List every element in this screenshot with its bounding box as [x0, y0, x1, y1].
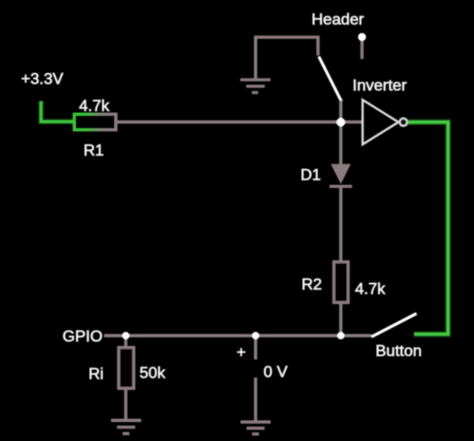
wire: node to diode anode	[339, 122, 342, 165]
svg-text:Button: Button	[376, 343, 422, 360]
svg-text:4.7k: 4.7k	[79, 98, 110, 115]
diode cathode bar	[330, 185, 353, 188]
wire: R1 to inverter input	[116, 120, 362, 123]
wire: inverter output net (green, glow)	[408, 122, 448, 334]
header pin terminal dot	[358, 33, 366, 41]
ground (Ri)	[111, 420, 141, 433]
resistor R2	[334, 262, 348, 303]
svg-text:+: +	[237, 345, 246, 362]
wire: R2 to bottom node	[339, 303, 342, 337]
wire: node to source + terminal	[254, 336, 257, 360]
diode D1	[331, 164, 351, 184]
svg-text:+3.3V: +3.3V	[21, 71, 64, 88]
wire: ground up and over to header switch	[256, 37, 318, 79]
svg-text:4.7k: 4.7k	[355, 281, 386, 298]
op-amp U1 inverter triangle	[363, 100, 399, 145]
switch lever (Header)	[319, 57, 342, 102]
node junction (inverter input / diode top)	[336, 118, 345, 127]
svg-text:Inverter: Inverter	[353, 78, 408, 95]
wire: bottom rail GPIO to button	[104, 334, 372, 337]
wire: node to Ri	[124, 336, 127, 347]
wire: diode to R2	[339, 187, 342, 261]
svg-text:Header: Header	[312, 12, 365, 29]
svg-text:D1: D1	[301, 167, 322, 184]
resistor Ri	[119, 347, 134, 388]
node at 0V source	[252, 332, 259, 339]
wire: +3.3V stub to R1 (green, glow)	[41, 101, 73, 122]
svg-text:0 V: 0 V	[264, 364, 288, 381]
wire: source - terminal to ground	[254, 378, 257, 422]
resistor R1	[74, 114, 116, 130]
wire: +3.3V stub to R1 (green)	[41, 101, 73, 122]
svg-text:50k: 50k	[140, 365, 167, 382]
ground (0V source)	[241, 422, 271, 434]
svg-text:Ri: Ri	[89, 366, 104, 383]
wire: inverter output to button, net (green)	[408, 122, 448, 334]
svg-text:R1: R1	[84, 143, 105, 160]
wire: switch common down to node	[339, 101, 342, 124]
node at GPIO / Ri	[122, 332, 129, 339]
switch lever (Button)	[372, 314, 417, 337]
header pin stub	[360, 40, 363, 59]
inverter output bubble	[400, 118, 408, 126]
svg-text:R2: R2	[302, 277, 323, 294]
node at R2 bottom / button	[337, 332, 344, 339]
wire: Ri to ground	[124, 389, 127, 420]
svg-text:GPIO: GPIO	[63, 329, 103, 346]
ground (header branch)	[240, 80, 270, 93]
